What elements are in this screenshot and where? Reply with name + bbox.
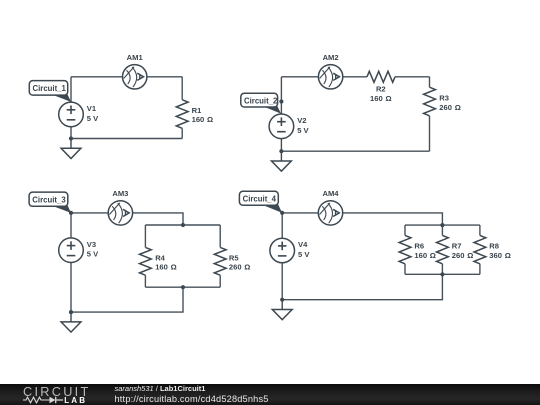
svg-text:160 Ω: 160 Ω — [155, 263, 177, 272]
voltage source V3 5 V — [59, 238, 84, 263]
wire C2 top right segment — [395, 76, 430, 78]
wire C1 top left segment — [71, 76, 123, 78]
wire C4 R7 top lead — [441, 225, 443, 235]
wire C3 top rail — [145, 224, 220, 226]
footer text line 2 — [115, 395, 269, 404]
wire C4 left vertical — [281, 213, 283, 238]
svg-text:R1: R1 — [192, 106, 202, 115]
wire C2 left vertical — [280, 77, 282, 114]
wire C3 bottom rail — [145, 286, 220, 288]
net flag Circuit_4 — [239, 191, 282, 213]
wire C4 R8 top lead — [479, 225, 481, 235]
wire C3 source bottom lead — [70, 263, 72, 313]
junction C3 ground node — [69, 310, 73, 314]
svg-text:R4: R4 — [155, 253, 165, 262]
wire C3 R4 bottom lead — [144, 275, 146, 287]
wire C2 top left segment — [281, 76, 318, 78]
wire C3 R5 top lead — [219, 225, 221, 247]
svg-text:160 Ω: 160 Ω — [414, 251, 436, 260]
voltage source V4 5 V — [270, 238, 295, 263]
junction C3 flag node — [69, 211, 73, 215]
svg-text:R3: R3 — [439, 94, 449, 103]
svg-text:R5: R5 — [229, 253, 239, 262]
svg-text:5 V: 5 V — [87, 250, 99, 259]
wire C4 top feed — [343, 213, 443, 225]
svg-text:AM2: AM2 — [323, 53, 339, 62]
junction C4 ground node — [280, 298, 284, 302]
wire C4 top left segment — [282, 212, 318, 214]
voltage source V2 5 V — [269, 114, 294, 139]
resistor R5 260Ω — [214, 247, 226, 275]
wire C4 top rail — [405, 224, 480, 226]
wire C4 R8 bottom lead — [479, 264, 481, 275]
wire C1 source bottom lead — [70, 127, 72, 139]
wire C4 R7 bottom lead — [441, 264, 443, 275]
svg-text:R2: R2 — [376, 85, 386, 94]
wire C4 R6 bottom lead — [404, 264, 406, 275]
svg-text:Circuit_2: Circuit_2 — [244, 97, 278, 106]
svg-text:260 Ω: 260 Ω — [439, 103, 461, 112]
wire C3 left vertical — [70, 213, 72, 238]
svg-text:Circuit_3: Circuit_3 — [32, 195, 66, 204]
resistor R4 160Ω — [140, 247, 152, 275]
svg-text:R8: R8 — [489, 242, 499, 251]
svg-text:5 V: 5 V — [87, 114, 99, 123]
resistor R1 160Ω — [176, 100, 188, 129]
wire C2 top mid segment — [343, 76, 367, 78]
svg-text:R7: R7 — [452, 242, 462, 251]
wire C3 R4 top lead — [144, 225, 146, 247]
junction C3 bottom rail junction — [181, 285, 185, 289]
svg-text:160 Ω: 160 Ω — [192, 115, 214, 124]
wire C2 right upper — [429, 77, 431, 87]
svg-text:Circuit_4: Circuit_4 — [243, 195, 277, 204]
wire C3 bottom return — [71, 287, 183, 312]
wire C4 R6 top lead — [404, 225, 406, 235]
wire C1 top right segment — [147, 76, 182, 78]
voltage source V1 5 V — [59, 102, 84, 127]
CircuitLab logo: CIRCUIT text — [23, 387, 91, 397]
wire C4 bottom rail — [405, 273, 480, 275]
svg-text:V1: V1 — [87, 104, 97, 113]
ammeter AM1 — [123, 65, 147, 89]
wire C1 right lower — [181, 128, 183, 138]
CircuitLab logo: resistor-diode squiggle — [23, 396, 65, 404]
svg-text:AM4: AM4 — [322, 189, 339, 198]
resistor R7 260Ω — [437, 235, 449, 263]
svg-text:R6: R6 — [414, 242, 424, 251]
svg-text:5 V: 5 V — [298, 250, 310, 259]
svg-text:V3: V3 — [87, 240, 96, 249]
resistor R2 160Ω — [367, 71, 395, 82]
ammeter AM4 — [318, 201, 342, 225]
wire C3 top feed — [133, 213, 183, 225]
wire C4 source bottom lead — [281, 263, 283, 300]
junction C4 bottom rail junction — [440, 272, 444, 276]
wire C1 bottom — [71, 138, 182, 140]
wire C1 right upper — [181, 77, 183, 100]
junction C2 ground node — [279, 149, 283, 153]
svg-text:AM1: AM1 — [127, 53, 144, 62]
ground GND3 — [61, 312, 81, 332]
ammeter AM2 — [318, 65, 342, 89]
ground GND2 — [272, 151, 292, 171]
svg-text:260 Ω: 260 Ω — [229, 263, 251, 272]
wire C3 R5 bottom lead — [219, 275, 221, 287]
svg-text:V4: V4 — [298, 240, 308, 249]
svg-text:AM3: AM3 — [112, 189, 128, 198]
svg-text:5 V: 5 V — [297, 126, 309, 135]
footer text line 1 — [115, 385, 206, 393]
junction C1 ground node — [69, 136, 73, 140]
net flag Circuit_3 — [29, 192, 71, 213]
junction C2 flag node — [279, 99, 283, 103]
ground GND4 — [272, 300, 292, 320]
svg-text:V2: V2 — [297, 116, 306, 125]
net flag Circuit_1 — [29, 81, 71, 102]
resistor R3 260Ω — [424, 87, 436, 116]
resistor R6 160Ω — [399, 235, 411, 263]
junction C3 top rail junction — [181, 223, 185, 227]
svg-text:260 Ω: 260 Ω — [452, 251, 474, 260]
ammeter AM3 — [108, 201, 132, 225]
svg-text:160 Ω: 160 Ω — [370, 94, 392, 103]
wire C1 left vertical — [70, 77, 72, 102]
svg-text:360 Ω: 360 Ω — [489, 251, 511, 260]
wire C2 source bottom lead — [280, 139, 282, 152]
ground GND1 — [61, 139, 81, 159]
CircuitLab logo: LAB text — [64, 397, 87, 405]
net flag Circuit_2 — [241, 93, 281, 113]
wire C4 bottom return — [282, 274, 442, 299]
wire C3 top left segment — [71, 212, 108, 214]
junction C4 flag node — [280, 211, 284, 215]
junction C4 top rail junction — [440, 223, 444, 227]
footer bar — [0, 384, 540, 405]
svg-text:Circuit_1: Circuit_1 — [33, 84, 67, 93]
wire C2 bottom — [281, 150, 429, 152]
resistor R8 360Ω — [474, 235, 486, 263]
wire C2 right lower — [429, 116, 431, 151]
